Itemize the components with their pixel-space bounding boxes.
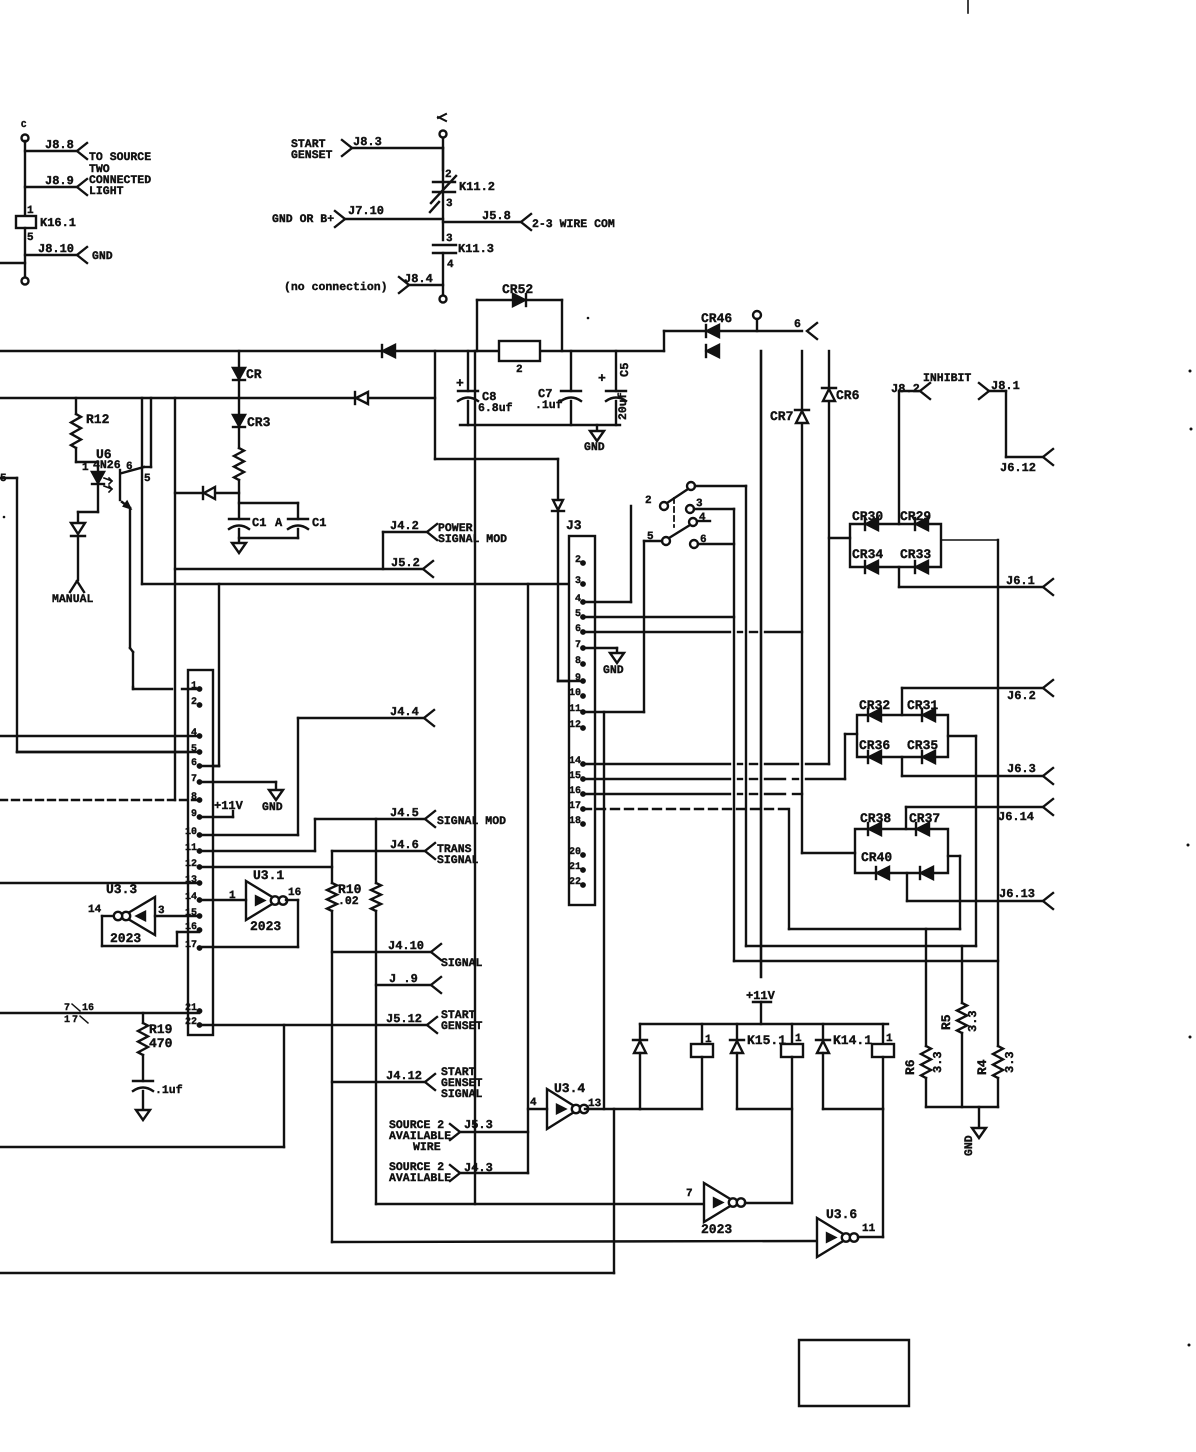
svg-text:2: 2: [191, 697, 197, 708]
connector J5.8: [443, 209, 615, 231]
svg-text:CR7: CR7: [770, 409, 793, 424]
gate U3.1: [229, 868, 301, 934]
gate U3.6: [817, 1207, 876, 1257]
svg-text:CR3: CR3: [247, 415, 271, 430]
svg-text:6: 6: [794, 318, 801, 331]
resistor R5: [939, 946, 980, 1107]
wire column to 1147 line: [0, 1025, 284, 1147]
wire bridge2 to J6.2: [902, 688, 1043, 715]
svg-text:R6: R6: [903, 1059, 918, 1075]
switch S2 blade: [647, 525, 690, 545]
wire pin8 dashed line: [0, 799, 197, 801]
wire pin10 to J4.4: [200, 718, 298, 835]
diode relay D2: [730, 1024, 744, 1109]
svg-text:3.3: 3.3: [931, 1051, 945, 1073]
svg-text:2: 2: [516, 364, 523, 376]
svg-text:6: 6: [191, 758, 197, 769]
connector J8.1: [979, 379, 1043, 457]
svg-text:.1uf: .1uf: [155, 1084, 183, 1097]
connector J8.4 no connection: [284, 272, 447, 303]
svg-text:GENSET: GENSET: [441, 1020, 483, 1033]
svg-text:K11.2: K11.2: [459, 180, 495, 194]
ground GND at pin7: [262, 782, 283, 814]
wire crossbar C: [734, 960, 998, 962]
diode steering left: [175, 487, 239, 499]
svg-text:1: 1: [191, 681, 197, 692]
diode CR32: [859, 698, 890, 721]
wire J3 pin11 line: [583, 711, 644, 713]
svg-text:(no connection): (no connection): [284, 281, 388, 294]
optocoupler U6 label: [93, 447, 133, 473]
diode CR29: [900, 509, 931, 530]
svg-text:GND: GND: [963, 1135, 976, 1156]
svg-text:SIGNAL: SIGNAL: [441, 1088, 483, 1101]
svg-text:CR6: CR6: [836, 388, 860, 403]
svg-text:1: 1: [64, 1015, 70, 1026]
svg-text:J4.6: J4.6: [390, 838, 419, 852]
diode CR34: [852, 547, 883, 573]
relay coil K16.1: [16, 205, 76, 244]
diode on bus1: [382, 345, 395, 357]
wire bridge2 to J6.3: [902, 757, 1043, 776]
wire U3.3 input: [155, 915, 199, 917]
wire pin12 line right side: [200, 866, 332, 868]
power +11V relay rail: [746, 989, 776, 1024]
svg-text:LIGHT: LIGHT: [89, 185, 124, 198]
terminal circle on CR46 line: [753, 311, 761, 331]
wire J3 pin6 line: [583, 631, 802, 633]
diode CR35: [907, 738, 938, 763]
switch S1 blade: [645, 482, 746, 510]
connector J2 body: [185, 670, 213, 1035]
diode CR37: [909, 811, 940, 835]
svg-text:10: 10: [569, 688, 581, 699]
wire pin5 line from column: [17, 751, 197, 753]
connector J6.1: [1006, 574, 1053, 595]
switch S2 contact 6: [690, 534, 734, 548]
svg-text:U3.6: U3.6: [826, 1207, 857, 1222]
svg-text:J6.13: J6.13: [999, 887, 1035, 901]
connector J8.8: [25, 138, 87, 159]
connector J4.4: [298, 705, 434, 726]
wire resistor bottom rail: [926, 1106, 998, 1108]
svg-text:CR46: CR46: [701, 311, 732, 326]
wire crossbar A: [789, 928, 960, 930]
svg-text:CR40: CR40: [861, 850, 892, 865]
svg-text:4: 4: [530, 1097, 537, 1109]
wire below K16.1: [22, 228, 29, 285]
svg-text:SIGNAL MOD: SIGNAL MOD: [437, 815, 506, 828]
wire C1 to ground: [238, 529, 240, 543]
svg-text:18: 18: [569, 816, 581, 827]
svg-text:3: 3: [446, 198, 453, 210]
svg-text:4: 4: [575, 594, 581, 605]
wire column R10: [327, 851, 337, 1242]
switch S2 contact 4: [689, 512, 710, 526]
connector J4.6: [332, 838, 479, 867]
svg-text:22: 22: [569, 877, 581, 888]
diode relay D1: [633, 1024, 647, 1109]
svg-text:J4.4: J4.4: [390, 705, 419, 719]
ground GND bottom right: [963, 1107, 986, 1156]
resistor below CR3: [234, 448, 244, 480]
wire U3.4 input: [528, 1108, 547, 1110]
svg-text:CR: CR: [246, 367, 262, 382]
svg-text:16: 16: [569, 786, 581, 797]
diode CR36: [859, 738, 890, 763]
svg-text:13: 13: [185, 875, 197, 886]
diode CR52: [502, 282, 533, 306]
svg-text:J6.3: J6.3: [1007, 762, 1036, 776]
wire column U3.4 out down: [0, 1109, 614, 1273]
svg-text:J7.10: J7.10: [348, 204, 384, 218]
svg-text:R5: R5: [939, 1014, 954, 1030]
svg-text:15: 15: [569, 771, 581, 782]
gate 2023 pin7: [686, 1183, 745, 1237]
svg-text:SIGNAL: SIGNAL: [437, 854, 479, 867]
diode CR7 zener: [770, 409, 809, 424]
relay coil K1: [640, 1024, 713, 1109]
wire bridge3 to J6.13: [907, 873, 1043, 901]
wire U3.6 input line: [332, 1241, 817, 1242]
wire capacitor bottom rail: [460, 424, 620, 426]
svg-text:C1: C1: [312, 516, 326, 530]
svg-text:J3: J3: [566, 518, 582, 533]
wire stub 5 from left edge: [0, 473, 199, 752]
wire CR7 column: [801, 351, 803, 853]
wire bridge1 left stub: [829, 537, 850, 539]
wire bridge3 to J6.14: [906, 807, 1043, 829]
wire CR6 column: [828, 351, 830, 764]
resistor R12: [71, 398, 110, 448]
connector J7.10: [272, 204, 443, 227]
svg-text:GND OR B+: GND OR B+: [272, 213, 334, 226]
diode bridge box 1: [850, 524, 941, 567]
label START GENSET: [291, 138, 333, 162]
svg-text:11: 11: [185, 843, 197, 854]
wire column 789: [788, 809, 790, 929]
svg-text:GND: GND: [262, 801, 283, 814]
svg-text:R4: R4: [975, 1059, 990, 1075]
wire U3.6 output: [858, 1236, 883, 1238]
svg-text:U3.1: U3.1: [253, 868, 284, 883]
switch mechanical link: [673, 498, 675, 527]
wire J3 pin4 to switch: [583, 506, 631, 602]
connector J3 body: [566, 518, 595, 905]
svg-text:3.3: 3.3: [1003, 1051, 1017, 1073]
wire relay top rail: [640, 1023, 888, 1025]
connector J6.2: [1007, 680, 1053, 703]
svg-text:7: 7: [575, 640, 581, 651]
connector J4.10: [332, 939, 483, 970]
svg-text:2: 2: [445, 169, 452, 181]
wire K16.1 column: [24, 141, 26, 216]
wire bridge1 to J6.1: [899, 567, 1043, 587]
svg-text:J4.12: J4.12: [386, 1069, 422, 1083]
wire J5.2 line: [175, 568, 423, 570]
svg-text:K16.1: K16.1: [40, 216, 76, 230]
wire pin13 line from left edge: [0, 882, 197, 884]
capacitor C1: [229, 516, 283, 530]
svg-text:U3.3: U3.3: [106, 882, 137, 897]
wire U3.1 output loop to pin17: [200, 900, 298, 947]
svg-text:AVAILABLE: AVAILABLE: [389, 1172, 451, 1185]
wire K11 column upper: [442, 138, 444, 170]
svg-text:R12: R12: [86, 412, 110, 427]
wire bridge3 left stub: [802, 852, 855, 854]
wire bridge2 left stub to J3 pin15: [845, 734, 857, 779]
wire CR52 bypass loop: [477, 300, 562, 351]
svg-text:GND: GND: [603, 664, 624, 677]
wire bus2 rail: [0, 397, 435, 399]
connector J8.10: [25, 242, 113, 263]
svg-text:7: 7: [686, 1188, 693, 1200]
capacitor C8: [456, 351, 513, 425]
wire U3.4 output rail: [585, 1108, 640, 1110]
svg-text:J4.10: J4.10: [388, 939, 424, 953]
wire S2 common: [644, 541, 662, 712]
label TO SOURCE TWO CONNECTED LIGHT: [89, 151, 151, 198]
diode CR46 lower: [706, 345, 719, 357]
svg-text:CR37: CR37: [909, 811, 940, 826]
wire U3.1 input pin14: [200, 899, 246, 901]
svg-text:CR38: CR38: [860, 811, 891, 826]
svg-text:C1: C1: [252, 516, 266, 530]
svg-text:2023: 2023: [701, 1222, 732, 1237]
svg-text:8: 8: [575, 656, 581, 667]
capacitor C1 second: [239, 503, 326, 538]
wire pin21 line: [0, 1012, 199, 1014]
ground below C1: [232, 543, 246, 553]
svg-text:8: 8: [191, 792, 197, 803]
svg-text:6: 6: [575, 624, 581, 635]
wire R12 to U6 pin1: [76, 448, 98, 474]
diode CR46 upper: [701, 311, 732, 337]
label CR40: [861, 850, 892, 865]
svg-text:14: 14: [185, 892, 197, 903]
wire column 558 diode: [552, 459, 583, 681]
svg-text:7: 7: [64, 1003, 70, 1014]
wire column T3: [733, 509, 735, 961]
ground GND at J3 pin7: [603, 648, 624, 677]
transistor U6 internal: [120, 398, 151, 687]
svg-text:5: 5: [191, 744, 197, 755]
svg-text:.1uf: .1uf: [535, 399, 563, 412]
wire 459 cross line: [435, 458, 558, 460]
svg-text:SIGNAL MOD: SIGNAL MOD: [438, 533, 507, 546]
wire CR-CR3: [238, 380, 240, 415]
svg-text:+: +: [456, 376, 464, 391]
diode CR30: [852, 509, 883, 530]
svg-text:MANUAL: MANUAL: [52, 593, 94, 606]
diode on bus2: [355, 392, 368, 404]
svg-text:GND: GND: [92, 250, 113, 263]
svg-text:5: 5: [27, 232, 34, 244]
connector J5.2: [391, 556, 433, 577]
relay coil K15.1: [737, 1024, 803, 1203]
svg-text:6.8uf: 6.8uf: [478, 402, 513, 415]
wire U3.3 output loop to pin16: [102, 916, 199, 946]
diode CR33: [900, 547, 931, 573]
wire J3 pin17 dashed line: [583, 808, 789, 810]
capacitor at R19: [133, 1055, 183, 1110]
ground below R19 cap: [136, 1110, 150, 1120]
wire J3 pin3 long line: [142, 583, 583, 585]
connector J6.14: [998, 799, 1053, 824]
svg-text:22: 22: [185, 1017, 197, 1028]
svg-text:GENSET: GENSET: [291, 149, 333, 162]
wire CR3 to resistor: [238, 427, 240, 448]
svg-text:17: 17: [569, 801, 581, 812]
svg-text:1: 1: [82, 462, 89, 474]
diode manual column: [71, 523, 85, 580]
optocoupler U6 LED: [92, 472, 112, 492]
connector J.9: [376, 972, 441, 993]
diode CR6 zener: [822, 388, 860, 403]
svg-text:20uf: 20uf: [617, 392, 630, 420]
svg-text:J8.8: J8.8: [45, 138, 74, 152]
connector J8.3: [342, 135, 443, 156]
svg-text:J8.2: J8.2: [891, 382, 920, 396]
svg-text:J5.2: J5.2: [391, 556, 420, 570]
diode CR31: [907, 698, 938, 721]
svg-text:.02: .02: [338, 895, 359, 908]
diode CR40b: [920, 867, 933, 879]
svg-text:CR32: CR32: [859, 698, 890, 713]
ground GND below capacitors: [584, 425, 605, 454]
wire column J4.3 riser: [527, 584, 529, 1173]
wire column CR52 down: [474, 351, 476, 1204]
wire J3 pin7 to GND: [583, 647, 617, 649]
svg-text:K11.3: K11.3: [458, 242, 494, 256]
wire column T1: [745, 486, 747, 946]
wire U6 LED cathode: [78, 485, 98, 523]
power +11V at pin9: [200, 799, 244, 817]
connector J4.3: [389, 1161, 528, 1185]
wire column bus1 down: [434, 351, 436, 459]
svg-text:SIGNAL: SIGNAL: [441, 957, 483, 970]
wire J3 pin15 line: [583, 778, 845, 780]
svg-text:2023: 2023: [250, 919, 281, 934]
svg-text:J .9: J .9: [389, 972, 418, 986]
wire pin7 to GND: [200, 781, 276, 783]
wire 1204 line to gate 7: [376, 1203, 704, 1205]
svg-text:15: 15: [185, 908, 197, 919]
wire bridge1 right stub: [941, 539, 998, 541]
svg-text:2: 2: [575, 555, 581, 566]
svg-text:J5.8: J5.8: [482, 209, 511, 223]
connector J8.2: [891, 382, 930, 524]
node E terminal top: [438, 114, 447, 138]
svg-text:3: 3: [575, 576, 581, 587]
wire CR46 upper line: [664, 331, 802, 351]
svg-text:2-3 WIRE COM: 2-3 WIRE COM: [532, 218, 615, 231]
svg-text:5: 5: [575, 609, 581, 620]
diode bridge box 3: [855, 829, 948, 873]
svg-text:J6.1: J6.1: [1006, 574, 1035, 588]
wire column 761 B+: [760, 351, 763, 977]
connector J5.12: [386, 1009, 483, 1033]
label INHIBIT: [923, 372, 971, 385]
svg-text:C5: C5: [618, 363, 632, 377]
svg-text:J8.9: J8.9: [45, 174, 74, 188]
svg-text:CR52: CR52: [502, 282, 533, 297]
wire bus1 main B+ rail: [0, 350, 664, 352]
diode CR3: [233, 415, 271, 430]
diode CR38: [860, 811, 891, 835]
wire pin11 to J4.5: [200, 819, 315, 851]
capacitor C7: [535, 351, 581, 425]
svg-text:CR36: CR36: [859, 738, 890, 753]
svg-text:14: 14: [569, 756, 581, 767]
wire J3 pin16 line: [583, 793, 802, 795]
resistor companion: [371, 819, 381, 1204]
svg-text:+: +: [598, 371, 606, 386]
svg-text:17: 17: [185, 940, 197, 951]
label net 7-16 17: [64, 1003, 94, 1026]
svg-text:7: 7: [72, 1015, 78, 1026]
box bottom right: [799, 1340, 909, 1406]
mark top right tick: [967, 0, 969, 13]
svg-text:2: 2: [645, 495, 652, 507]
connector J6.12: [1000, 449, 1053, 475]
wire bridge3 right stub: [948, 856, 960, 929]
diode bridge box 2: [857, 715, 948, 757]
capacitor C5: [598, 351, 632, 425]
gate U3.3: [88, 882, 165, 946]
wire crossbar B: [746, 945, 976, 947]
svg-text:GND: GND: [584, 441, 605, 454]
wire column bus2 to J3 pin3 line: [141, 398, 143, 584]
wire J3 pin9 line: [558, 680, 583, 682]
svg-text:J6.14: J6.14: [998, 810, 1034, 824]
svg-text:10: 10: [185, 827, 197, 838]
svg-text:16: 16: [288, 887, 301, 899]
svg-text:12: 12: [569, 720, 581, 731]
wire column J3 pin11 to U3.4 out: [603, 712, 605, 1109]
svg-text:R19: R19: [149, 1022, 173, 1037]
svg-text:A: A: [275, 516, 283, 530]
svg-text:+11V: +11V: [214, 799, 244, 813]
gate U3.4: [530, 1081, 602, 1129]
svg-text:J6.12: J6.12: [1000, 461, 1036, 475]
wire gate7 output: [745, 1202, 792, 1204]
svg-text:470: 470: [149, 1036, 173, 1051]
svg-text:9: 9: [191, 809, 197, 820]
label R10: [338, 882, 362, 908]
wire J3 pin5 line: [583, 616, 734, 618]
node C terminal top-left: [21, 120, 29, 142]
svg-text:J4.2: J4.2: [390, 519, 419, 533]
wire column bus2 to pin8 dash line: [174, 398, 176, 800]
svg-text:4: 4: [191, 728, 197, 739]
wire resistor to C1: [238, 480, 240, 519]
arrow MANUAL: [52, 581, 94, 606]
svg-text:J5.3: J5.3: [464, 1118, 493, 1132]
wire J3 pin14 line: [583, 763, 829, 765]
connector J4.2: [383, 519, 507, 569]
svg-text:11: 11: [569, 704, 581, 715]
svg-text:3: 3: [446, 233, 453, 245]
svg-text:J8.10: J8.10: [38, 242, 74, 256]
svg-text:9: 9: [575, 673, 581, 684]
wire pin4 line: [0, 735, 197, 737]
svg-text:U3.4: U3.4: [554, 1081, 585, 1096]
wire left stub at J8.10 node: [0, 262, 25, 264]
svg-text:14: 14: [88, 904, 102, 916]
fuse F1 on bus: [499, 341, 540, 376]
svg-text:2023: 2023: [110, 931, 141, 946]
